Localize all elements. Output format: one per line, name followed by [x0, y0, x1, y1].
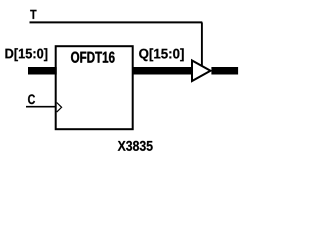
net label C: [28, 94, 35, 104]
tristate buffer: [192, 61, 211, 82]
wire T horizontal: [30, 21, 203, 23]
net label T: [30, 10, 36, 19]
label X3835: [118, 141, 153, 151]
label OFDT16: [71, 52, 115, 63]
bus D[15:0]: [28, 67, 57, 75]
clock input symbol: [57, 103, 62, 113]
net label Q[15:0]: [139, 48, 184, 61]
bus output: [211, 67, 238, 75]
flip-flop U1 OFDT16 body: [56, 46, 133, 129]
wire C: [26, 106, 56, 108]
wire T vertical: [201, 22, 203, 66]
net label D[15:0]: [5, 48, 47, 61]
bus Q[15:0]: [132, 67, 191, 75]
